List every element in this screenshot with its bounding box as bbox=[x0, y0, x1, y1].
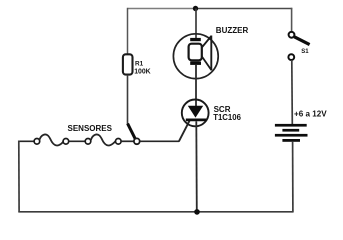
svg-text:+6 a 12V: +6 a 12V bbox=[294, 110, 327, 119]
sensor terminal circle 1 bbox=[34, 139, 40, 145]
battery B1 plate 1 long bbox=[275, 124, 307, 127]
svg-text:T1C106: T1C106 bbox=[213, 113, 241, 122]
node junction dot bottom (SCR cathode to rail) bbox=[194, 209, 200, 215]
svg-text:R1: R1 bbox=[135, 60, 144, 67]
svg-text:S1: S1 bbox=[301, 49, 309, 55]
switch S1 lower contact bbox=[288, 54, 294, 60]
wire sensor loop wave 1 bbox=[39, 135, 63, 146]
wire sensor straight segment 2-3 bbox=[69, 140, 86, 142]
buzzer bottom terminal bar bbox=[190, 62, 201, 65]
wire gate diagonal into SCR bbox=[179, 120, 190, 142]
SCR anode triangle bbox=[188, 106, 203, 118]
wire bottom return rail bbox=[18, 211, 293, 213]
buzzer horn mouth vertical bbox=[210, 36, 212, 71]
wire sensor straight segment 4-5 bbox=[121, 140, 134, 142]
sensor terminal circle 4 bbox=[116, 139, 122, 145]
buzzer horn upper diagonal bbox=[202, 36, 212, 48]
wire S1 to battery bbox=[291, 60, 294, 124]
wire buzzer to SCR anode bbox=[195, 65, 197, 107]
switch S1 blade bbox=[294, 37, 309, 45]
wire S1 branch down from top rail bbox=[291, 8, 293, 32]
svg-text:BUZZER: BUZZER bbox=[216, 26, 249, 35]
switch blade from R1 lead onto sensor terminal bbox=[128, 124, 136, 140]
buzzer top terminal bar bbox=[190, 38, 201, 41]
wire gate run from sensor chain bbox=[140, 140, 179, 142]
wire sensor line left segment bbox=[18, 140, 34, 142]
resistor R1 body bbox=[123, 54, 133, 74]
battery B1 plate 3 long bbox=[275, 134, 308, 137]
SCR U1 body circle bbox=[182, 100, 209, 127]
node junction dot top (buzzer tap) bbox=[193, 6, 198, 11]
battery B1 plate 2 short bbox=[282, 129, 299, 132]
wire R1 branch from top rail bbox=[127, 8, 129, 55]
svg-text:100K: 100K bbox=[134, 69, 150, 76]
sensor terminal circle 5 (switch contact) bbox=[134, 138, 140, 144]
wire buzzer branch from top dot bbox=[195, 9, 197, 39]
wire top horizontal right segment (+ rail) bbox=[196, 8, 293, 10]
switch S1 upper contact bbox=[289, 32, 295, 38]
battery B1 plate 4 short bbox=[282, 139, 300, 142]
svg-text:SENSORES: SENSORES bbox=[68, 124, 113, 133]
wire battery negative down bbox=[292, 142, 294, 212]
buzzer horn lower diagonal bbox=[202, 56, 212, 70]
wire sensor line down left side bbox=[18, 141, 20, 212]
buzzer BZ body circle bbox=[173, 34, 218, 79]
wire SCR cathode down bbox=[195, 121, 198, 212]
sensor terminal circle 3 bbox=[85, 139, 91, 145]
buzzer driver square bbox=[189, 44, 202, 61]
sensor terminal circle 2 bbox=[63, 139, 69, 145]
wire sensor loop wave 2 bbox=[91, 135, 116, 146]
SCR cathode bar bbox=[186, 119, 207, 122]
wire top horizontal left segment (+ rail) bbox=[128, 8, 196, 10]
wire R1 lower lead bbox=[127, 75, 129, 125]
